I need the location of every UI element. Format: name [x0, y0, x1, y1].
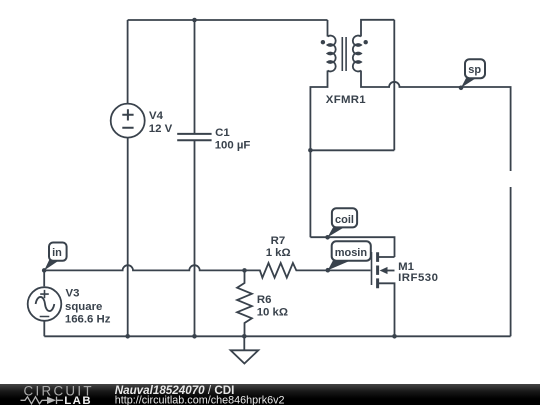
wire spark gap lower segment: [510, 187, 512, 336]
wire in row with hops: [44, 265, 244, 270]
flag coil: [325, 208, 357, 239]
primary top lead: [327, 20, 329, 37]
svg-text:V4: V4: [149, 110, 164, 122]
svg-text:LAB: LAB: [64, 395, 92, 405]
primary winding: [328, 36, 336, 72]
wire C1 branch top: [194, 20, 196, 134]
svg-text:V3: V3: [66, 288, 80, 300]
svg-text:sp: sp: [468, 64, 481, 76]
voltage source V4: [111, 104, 145, 138]
svg-text:1 kΩ: 1 kΩ: [266, 247, 291, 259]
svg-text:R7: R7: [271, 235, 286, 247]
wire gate lead: [328, 269, 371, 271]
footer bar: [0, 384, 540, 405]
logo zigzag diode glyph: [21, 397, 64, 404]
svg-text:square: square: [65, 301, 102, 313]
resistor R7: [245, 263, 328, 278]
body arrow line: [385, 270, 395, 272]
svg-text:R6: R6: [257, 294, 272, 306]
svg-text:XFMR1: XFMR1: [326, 94, 366, 106]
flag in: [42, 243, 67, 273]
wire V3 top lead: [43, 270, 45, 286]
gate bar: [371, 252, 373, 285]
secondary winding: [353, 36, 361, 72]
mosfet arrow head: [380, 267, 388, 274]
wire V4 branch bottom: [127, 138, 129, 337]
svg-text:mosin: mosin: [335, 247, 368, 259]
svg-text:12 V: 12 V: [149, 123, 173, 135]
flag mosin: [326, 241, 371, 272]
wire secondary bottom to junction: [310, 149, 394, 151]
resistor R6: [237, 270, 252, 336]
wire coil node to drain bus: [310, 237, 394, 257]
primary phase dot: [321, 40, 325, 44]
svg-text:coil: coil: [335, 214, 354, 226]
wire top rail: [128, 19, 328, 21]
svg-text:in: in: [52, 247, 62, 259]
svg-text:C1: C1: [215, 127, 230, 139]
source stub: [379, 283, 395, 336]
wire V4 branch top: [127, 20, 129, 104]
svg-text:100 µF: 100 µF: [215, 139, 251, 151]
wire bottom rail: [44, 335, 510, 337]
wire C1 branch bottom: [194, 140, 196, 336]
capacitor C1: [177, 134, 211, 140]
mosfet M1: [372, 252, 395, 336]
core: [342, 37, 346, 71]
flag sp: [459, 59, 485, 90]
channel segments: [376, 252, 379, 288]
ground symbol: [231, 336, 259, 363]
wire secondary lower lead to sp (hop over x=394.3): [361, 71, 511, 172]
svg-text:10 kΩ: 10 kΩ: [257, 306, 288, 318]
secondary phase dot: [364, 40, 368, 44]
voltage source V3: [28, 287, 62, 321]
transformer XFMR1: [321, 20, 395, 72]
svg-text:166.6 Hz: 166.6 Hz: [65, 314, 111, 326]
secondary top lead: [361, 20, 394, 37]
drain stub: [379, 256, 395, 258]
svg-text:http://circuitlab.com/che846hp: http://circuitlab.com/che846hprk6v2: [115, 394, 285, 405]
svg-text:M1: M1: [398, 261, 414, 273]
wire primary bottom lead: [310, 71, 327, 238]
wire V3 bottom lead: [43, 320, 45, 336]
wire secondary right branch down: [393, 20, 395, 151]
svg-text:IRF530: IRF530: [398, 272, 438, 284]
